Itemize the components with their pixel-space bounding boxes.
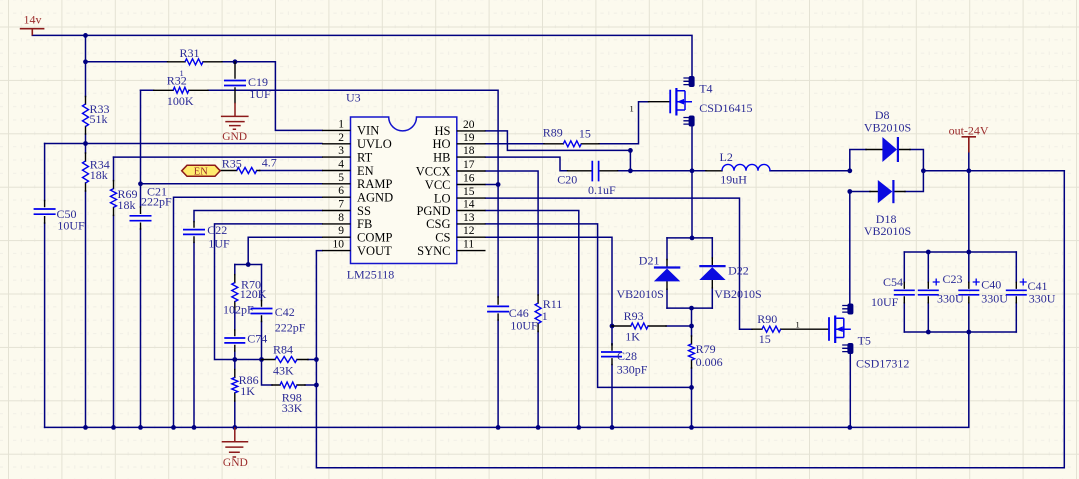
op-amp U3 chip body LM25118	[351, 117, 457, 264]
wire COMP pin9 to R70 C42 bar	[248, 237, 322, 264]
junction caps top rail C40	[966, 250, 971, 255]
wire C28 upper lead	[611, 326, 613, 344]
svg-text:222pF: 222pF	[141, 195, 172, 209]
wire RAMP row pin5	[141, 183, 323, 185]
svg-text:T5: T5	[858, 334, 871, 348]
svg-text:CS: CS	[435, 231, 450, 245]
wire output node down to capacitor bank	[968, 171, 970, 252]
ground symbol GND lower (bus)	[222, 427, 249, 457]
svg-text:1UF: 1UF	[249, 87, 271, 101]
chip pin stubs right	[457, 131, 486, 251]
lead L2	[706, 170, 722, 172]
svg-text:15: 15	[463, 186, 475, 198]
lead R33	[85, 97, 87, 135]
svg-text:330U: 330U	[937, 291, 964, 305]
junction R84 right at VOUT column	[314, 357, 319, 362]
lead C28	[611, 344, 613, 365]
lead C74	[234, 330, 236, 351]
svg-text:VCC: VCC	[425, 178, 451, 192]
wire switch node row	[618, 170, 850, 172]
svg-text:18k: 18k	[90, 168, 108, 182]
lead R79	[691, 336, 693, 368]
junction C20 switch row	[628, 168, 633, 173]
svg-text:14: 14	[463, 199, 475, 211]
wire C54 column	[903, 252, 905, 332]
wire R93 right to R79 column	[666, 325, 691, 327]
wire GND bus	[45, 332, 969, 427]
svg-text:8: 8	[338, 212, 344, 224]
junction COMP at R70 C42 bar	[246, 262, 251, 267]
junction bus AGND	[171, 425, 176, 430]
svg-text:VIN: VIN	[357, 124, 379, 138]
svg-text:PGND: PGND	[416, 204, 450, 218]
wire D22 column	[711, 238, 713, 308]
svg-text:5: 5	[338, 172, 344, 184]
resistor R33	[83, 104, 89, 127]
resistor R31	[185, 59, 203, 65]
junction bus R86 GND	[232, 425, 237, 430]
capacitor C40	[958, 290, 979, 295]
svg-text:6: 6	[338, 185, 344, 197]
junction caps bottom rail C23	[926, 330, 931, 335]
power port out-24V	[962, 137, 977, 153]
wire R79 bottom to CSG node to bus	[691, 368, 693, 427]
svg-text:HB: HB	[433, 150, 450, 164]
wire UVLO row pin2	[45, 143, 322, 145]
junction R31 left	[83, 59, 88, 64]
svg-text:U3: U3	[346, 91, 361, 105]
svg-text:C22: C22	[207, 223, 227, 237]
svg-text:18k: 18k	[118, 198, 136, 212]
lead R11	[537, 295, 539, 332]
svg-text:VCCX: VCCX	[416, 164, 451, 178]
capacitor C41 plus sign	[1020, 279, 1027, 286]
svg-text:RT: RT	[357, 150, 373, 164]
junction D rail bottom center	[689, 306, 694, 311]
ground symbol GND upper (C19)	[221, 103, 249, 130]
wire AGND pin6 to bus	[174, 197, 323, 427]
wire capacitor bank bottom rail	[904, 331, 1016, 333]
wire C23 column	[927, 252, 929, 332]
svg-text:VB2010S: VB2010S	[714, 287, 761, 301]
svg-text:R90: R90	[757, 312, 777, 326]
svg-text:out-24V: out-24V	[949, 124, 989, 138]
svg-text:R89: R89	[543, 126, 563, 140]
wire R70 C42 top bar	[235, 264, 262, 266]
wire RT row pin3	[114, 156, 323, 158]
diode D8	[882, 137, 898, 162]
wire R98 branch row	[262, 360, 317, 386]
svg-text:C20: C20	[557, 172, 577, 186]
svg-text:1: 1	[542, 309, 548, 323]
svg-text:330U: 330U	[981, 291, 1008, 305]
junction bus R79	[689, 425, 694, 430]
svg-text:D21: D21	[639, 254, 660, 268]
junction top rail at R33 column	[83, 33, 88, 38]
lead R93	[612, 325, 666, 327]
capacitor C21	[130, 216, 152, 221]
svg-text:10UF: 10UF	[871, 295, 899, 309]
svg-text:0.1uF: 0.1uF	[588, 183, 616, 197]
svg-text:330pF: 330pF	[617, 363, 648, 377]
wire left column R33/R34 from top rail to GND bus	[85, 35, 87, 427]
lead D18	[870, 191, 905, 193]
svg-text:R93: R93	[624, 309, 644, 323]
junction divider node C42	[259, 357, 264, 362]
capacitor C54	[894, 290, 915, 295]
lead R86	[234, 369, 236, 401]
capacitor C22	[183, 230, 205, 235]
junction D8 D18 right	[921, 168, 926, 173]
resistor R93	[631, 323, 648, 329]
svg-text:EN: EN	[194, 167, 208, 178]
wire C21 column RAMP net	[140, 90, 142, 427]
junction HS C20 upper	[628, 148, 633, 153]
wire switch node down to D21 D22 rail	[691, 171, 693, 238]
lead C20	[568, 170, 618, 172]
lead D22	[711, 258, 713, 288]
svg-text:1UF: 1UF	[208, 237, 230, 251]
svg-text:VB2010S: VB2010S	[864, 224, 911, 238]
wire R69 column	[113, 157, 115, 427]
svg-text:R32: R32	[167, 74, 187, 88]
svg-text:EN: EN	[357, 164, 374, 178]
wire HS pin20 to switch node	[486, 131, 631, 151]
lead C40	[968, 282, 970, 303]
wire R70 C74 column	[234, 265, 236, 360]
junction R31 right C19 top	[233, 59, 238, 64]
svg-text:4.7: 4.7	[262, 156, 277, 170]
junction divider node left	[232, 357, 237, 362]
junction RAMP at C21 column	[138, 181, 143, 186]
junction D rail top center	[690, 236, 695, 241]
svg-text:19: 19	[463, 132, 475, 144]
lead C41	[1015, 282, 1017, 303]
svg-text:10UF: 10UF	[510, 319, 538, 333]
svg-text:C23: C23	[943, 272, 963, 286]
capacitor C50	[34, 209, 56, 214]
svg-text:102pF: 102pF	[223, 303, 254, 317]
capacitor plates (blue)	[34, 81, 1027, 357]
lead R35	[220, 170, 260, 172]
svg-text:T4: T4	[699, 82, 712, 96]
JUNCTIONS-GROUP	[83, 33, 971, 430]
svg-text:43K: 43K	[273, 363, 294, 377]
wire capacitor bank top rail	[904, 251, 1016, 253]
svg-text:51k: 51k	[90, 112, 108, 126]
svg-text:VOUT: VOUT	[357, 244, 392, 258]
resistor R98	[280, 382, 297, 388]
svg-text:330U: 330U	[1029, 291, 1056, 305]
transistor T4	[670, 76, 694, 127]
junction R79 bottom CSG	[689, 385, 694, 390]
lead C21	[140, 207, 142, 229]
lead D8	[866, 149, 910, 151]
svg-text:1K: 1K	[625, 330, 640, 344]
wire R32 row to VCC column and C46 to bus	[141, 90, 499, 427]
capacitor C19	[224, 81, 246, 86]
svg-text:LM25118: LM25118	[347, 268, 395, 282]
svg-text:R31: R31	[180, 46, 200, 60]
capacitor C23	[918, 290, 939, 295]
lead D21	[666, 260, 668, 290]
capacitor C42	[251, 309, 273, 314]
capacitor C28	[601, 352, 622, 357]
svg-text:COMP: COMP	[357, 231, 392, 245]
lead C42	[261, 301, 263, 322]
svg-text:100K: 100K	[167, 94, 194, 108]
svg-text:4: 4	[338, 159, 344, 171]
lead C22	[193, 222, 195, 243]
lead R89	[544, 143, 599, 145]
svg-text:9: 9	[338, 225, 344, 237]
svg-text:0.006: 0.006	[696, 355, 723, 369]
wire SS pin7 to C22 to bus	[194, 211, 322, 428]
wire out-24V stem lower part	[968, 152, 970, 171]
lead R70	[234, 275, 236, 310]
svg-text:AGND: AGND	[357, 191, 393, 205]
svg-text:1: 1	[630, 104, 634, 114]
svg-text:L2: L2	[720, 150, 733, 164]
lead R98	[272, 384, 305, 386]
capacitor C40 plus sign	[973, 279, 980, 286]
svg-text:20: 20	[463, 119, 475, 131]
junction bus R34	[83, 425, 88, 430]
net label port EN	[182, 165, 221, 176]
svg-text:18: 18	[463, 145, 475, 157]
wire VCC pin16 stub link	[486, 184, 499, 186]
svg-text:13: 13	[463, 212, 475, 224]
svg-text:GND: GND	[223, 457, 248, 469]
wire R86 column to bus	[234, 360, 236, 428]
junction VCC pin16	[496, 182, 501, 187]
chip pin names left	[357, 124, 393, 258]
wire D21 column	[666, 238, 668, 308]
wire PGND pin14 to bus	[486, 211, 579, 428]
lead C50	[44, 201, 46, 224]
svg-text:VB2010S: VB2010S	[864, 121, 911, 135]
wire VOUT pin10 down and bottom rail to output	[316, 171, 1064, 468]
diode D22	[699, 266, 725, 280]
svg-text:1: 1	[796, 320, 800, 330]
junction caps bottom rail C40	[966, 330, 971, 335]
svg-text:33K: 33K	[282, 401, 303, 415]
svg-text:C28: C28	[617, 349, 637, 363]
resistor R70	[232, 283, 238, 302]
resistor R11	[535, 303, 541, 323]
svg-text:R84: R84	[273, 342, 293, 356]
svg-text:D22: D22	[728, 264, 749, 278]
junction bus R69	[111, 425, 116, 430]
junction bus PGND	[576, 425, 581, 430]
junction bus C22	[192, 425, 197, 430]
svg-text:C40: C40	[981, 278, 1001, 292]
wire C40 column	[968, 252, 970, 332]
junction D18 left lower	[847, 189, 852, 194]
wire D21 D22 bottom rail	[667, 307, 712, 309]
junction bus C21	[138, 425, 143, 430]
svg-text:CSD17312: CSD17312	[856, 357, 909, 371]
chip pin names right	[416, 124, 451, 258]
svg-text:1: 1	[338, 118, 344, 130]
resistor R35	[237, 168, 257, 174]
svg-text:15: 15	[579, 127, 591, 141]
wire T5 drain column from D18 node	[849, 192, 851, 304]
lead R69	[113, 181, 115, 216]
lead T4 gate	[649, 101, 670, 103]
junction R93 right R79 top	[689, 324, 694, 329]
resistor R89	[563, 141, 581, 147]
junction bus C28	[610, 425, 615, 430]
capacitor C20	[592, 161, 598, 182]
svg-text:1K: 1K	[240, 384, 255, 398]
resistor bodies (blue zigzags)	[83, 59, 781, 393]
svg-text:C42: C42	[275, 305, 295, 319]
wire C50 column	[44, 144, 46, 428]
junction R93 left at CS column	[610, 324, 615, 329]
resistor R86	[232, 377, 238, 392]
transistor T5	[829, 304, 853, 355]
junction R98 right at VOUT column	[314, 383, 319, 388]
svg-text:14v: 14v	[24, 12, 42, 26]
junction bus C46	[496, 425, 501, 430]
wire C41 column	[1015, 252, 1017, 332]
svg-text:10: 10	[333, 239, 345, 251]
svg-text:11: 11	[463, 239, 474, 251]
svg-text:SYNC: SYNC	[417, 244, 450, 258]
svg-text:C74: C74	[247, 332, 267, 346]
wire T5 source to bus	[849, 354, 851, 427]
resistor R84	[275, 357, 297, 363]
svg-text:19uH: 19uH	[720, 173, 747, 187]
chip pin numbers right	[463, 119, 475, 251]
svg-text:CSD16415: CSD16415	[699, 101, 752, 115]
wire C20 right link to HS	[629, 150, 631, 170]
svg-text:CSG: CSG	[426, 217, 450, 231]
svg-text:120K: 120K	[240, 287, 267, 301]
lead R31	[168, 61, 223, 63]
wire EN row to pin4	[260, 170, 322, 172]
component leads (black)	[45, 62, 1017, 401]
wire HB pin18 to C20	[486, 157, 568, 171]
svg-text:RAMP: RAMP	[357, 177, 392, 191]
junction bus R11	[536, 425, 541, 430]
wire D21 D22 top rail	[667, 237, 712, 239]
lead C19	[234, 62, 236, 103]
capacitor C23 plus sign	[933, 279, 940, 286]
lead R34	[85, 153, 87, 191]
wire CS pin12 to R93 C28	[486, 237, 613, 427]
svg-text:10UF: 10UF	[57, 219, 85, 233]
svg-text:VB2010S: VB2010S	[617, 287, 664, 301]
svg-text:FB: FB	[357, 217, 372, 231]
chip pin numbers left	[333, 118, 345, 250]
chip pin stubs left	[322, 130, 486, 250]
resistor R69	[111, 189, 117, 208]
resistor R79	[689, 344, 695, 360]
resistor R34	[83, 161, 89, 183]
junction T4 source switch row	[690, 168, 695, 173]
svg-text:GND: GND	[222, 131, 247, 143]
svg-text:222pF: 222pF	[275, 320, 306, 334]
wire LO pin15 to R90	[486, 198, 753, 329]
svg-text:15: 15	[759, 332, 771, 346]
wire output row to right edge	[923, 170, 1064, 172]
wire D18 branch	[850, 171, 924, 192]
junction UVLO R33 R34	[83, 141, 88, 146]
junction output node	[966, 168, 971, 173]
svg-text:16: 16	[463, 173, 475, 185]
svg-text:R35: R35	[222, 156, 242, 170]
svg-text:HS: HS	[435, 124, 451, 138]
power port 14v	[20, 29, 45, 36]
wire T4 source to switch row	[691, 127, 693, 171]
svg-text:12: 12	[463, 225, 475, 237]
svg-text:2: 2	[338, 132, 344, 144]
lead C54	[903, 282, 905, 303]
resistor R32	[173, 87, 189, 93]
wire CSG pin13 to R79 bottom	[486, 224, 692, 388]
lead C46	[497, 297, 499, 320]
wire C42 column	[261, 265, 263, 360]
wire R31 row to VIN pin1	[86, 62, 323, 131]
svg-text:7: 7	[338, 199, 344, 211]
svg-text:C54: C54	[883, 275, 903, 289]
junction caps top rail C23	[926, 250, 931, 255]
wire 14v top rail to T4 drain	[32, 35, 692, 75]
wire VCCX pin17 R11 column to bus	[486, 171, 539, 427]
inductor L2	[722, 164, 770, 170]
diode D21	[654, 268, 680, 282]
lead R90	[752, 328, 828, 330]
capacitor C46	[487, 306, 509, 311]
wire HO pin19 to R89 to T4 gate	[486, 102, 649, 144]
svg-text:R79: R79	[696, 342, 716, 356]
junction bus T5	[847, 425, 852, 430]
lead R84	[262, 359, 309, 361]
capacitor C74	[224, 338, 245, 343]
resistor R90	[762, 326, 781, 332]
diode D18	[878, 180, 894, 203]
lead C23	[927, 282, 929, 303]
svg-text:UVLO: UVLO	[357, 137, 392, 151]
svg-text:17: 17	[463, 159, 475, 171]
svg-text:HO: HO	[432, 137, 450, 151]
svg-text:3: 3	[338, 145, 344, 157]
wire FB pin8 to divider node	[215, 224, 323, 360]
lead R32	[154, 89, 208, 91]
wire D8 branch	[850, 150, 924, 171]
wire divider node row with R84	[235, 359, 317, 361]
capacitor C41	[1006, 290, 1027, 295]
svg-text:SS: SS	[357, 204, 371, 218]
junction D8 D18 left	[847, 168, 852, 173]
wire rail to R93 R79 node	[691, 308, 693, 336]
